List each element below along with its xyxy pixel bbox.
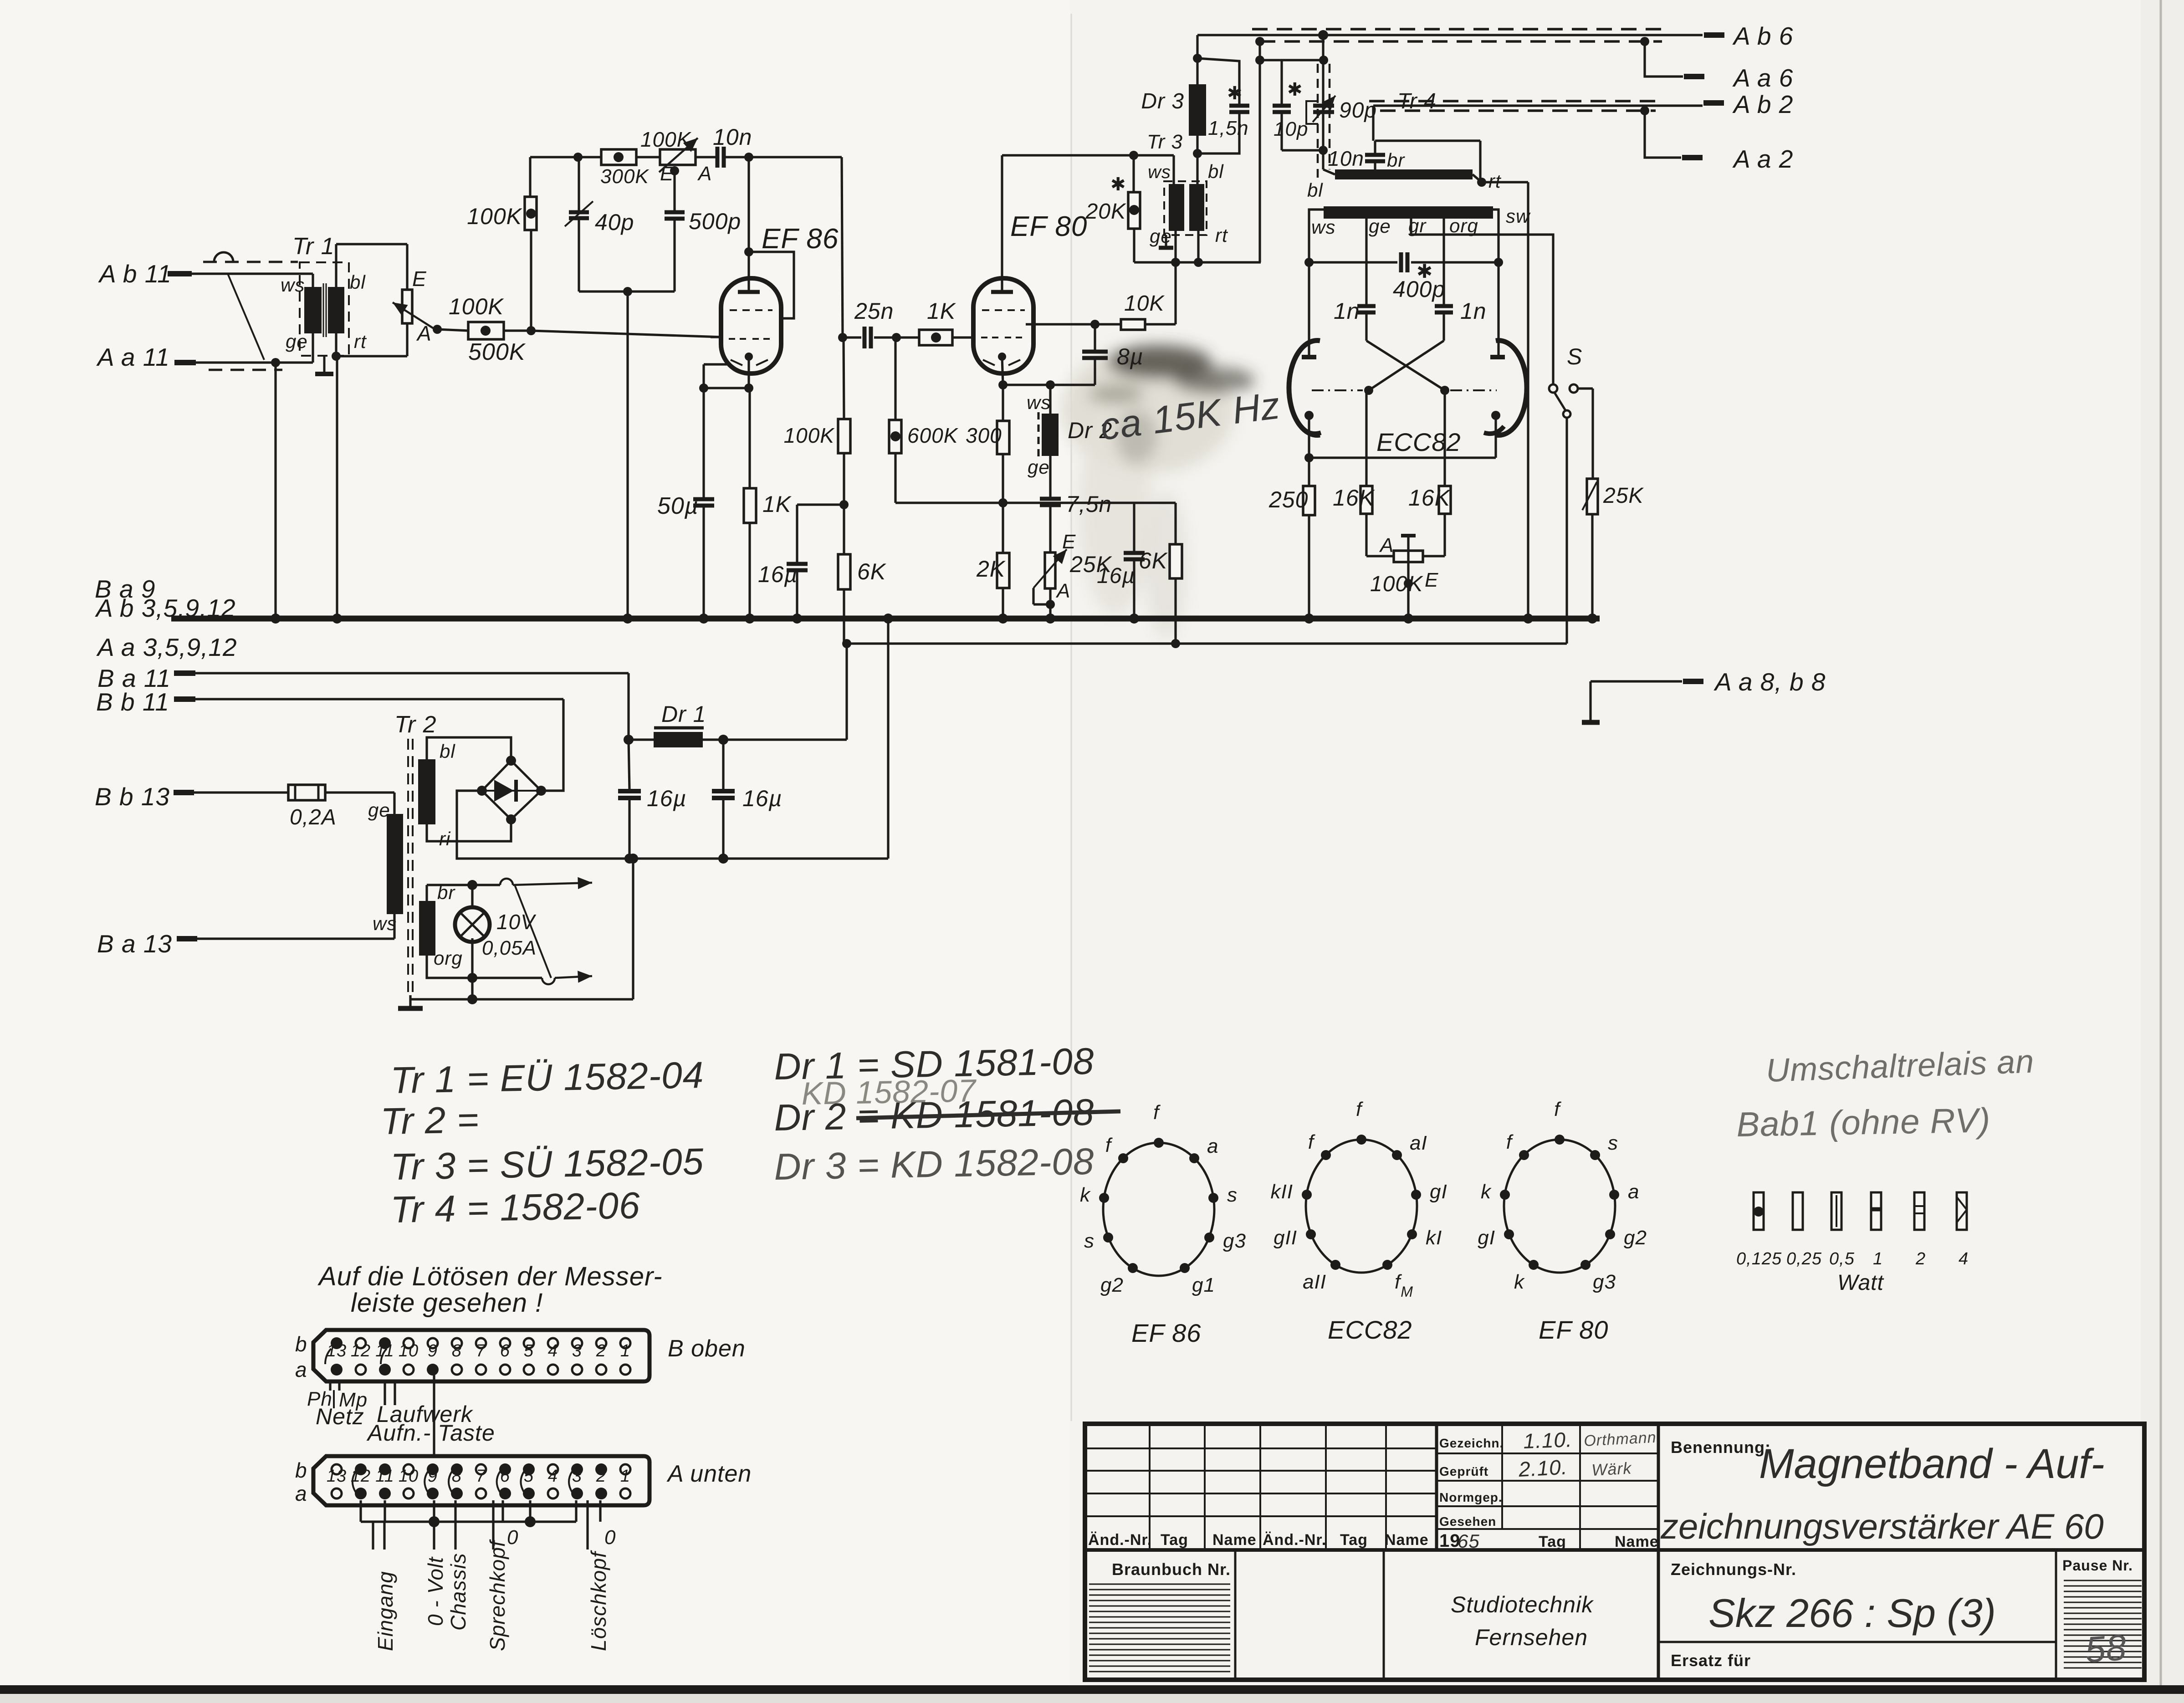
wire: common cathode	[1309, 415, 1496, 486]
svg-text:A a 6: A a 6	[1732, 64, 1793, 92]
svg-text:6: 6	[500, 1341, 510, 1360]
resistor 6K (EF80 stage)	[1139, 503, 1182, 644]
svg-text:3: 3	[572, 1467, 582, 1486]
svg-text:1,5n: 1,5n	[1208, 117, 1249, 139]
EF86 grids (dashed)	[729, 310, 773, 365]
label 0-Volt	[424, 1556, 447, 1626]
wire: sw drop to right anode	[1493, 210, 1499, 357]
wire: EF86 anode drop	[842, 157, 843, 338]
terminal Ab 11	[98, 260, 313, 288]
wire: heater bottom rail	[427, 956, 592, 984]
svg-text:5: 5	[524, 1341, 534, 1360]
svg-text:6K: 6K	[1139, 548, 1168, 573]
wire: 6K tie to 300/2K node	[1003, 501, 1176, 504]
node: 10p top	[1255, 56, 1324, 65]
node: sw/400p	[1494, 258, 1503, 267]
title Magnetband-Auf-	[1759, 1441, 2105, 1487]
B+ rail (thin bus)	[847, 642, 1567, 644]
svg-text:4: 4	[1959, 1249, 1969, 1268]
svg-text:500p: 500p	[689, 209, 741, 234]
svg-text:10: 10	[399, 1467, 419, 1486]
svg-text:Dr 1: Dr 1	[661, 701, 706, 727]
svg-text:10V: 10V	[496, 910, 537, 934]
tube ECC82 right half	[1484, 341, 1527, 435]
svg-text:9: 9	[428, 1467, 438, 1486]
scan fold line	[1071, 0, 2161, 1703]
EF86 grid lead	[711, 336, 721, 338]
svg-text:aII: aII	[1303, 1271, 1326, 1293]
svg-text:Tag: Tag	[1161, 1531, 1188, 1549]
svg-text:0 - Volt: 0 - Volt	[424, 1556, 447, 1626]
capacitor 7,5n	[1040, 456, 1112, 553]
svg-text:0,25: 0,25	[1786, 1249, 1822, 1268]
wire: cable tails	[373, 1500, 588, 1550]
ground bus (thick)	[171, 616, 1600, 622]
switch S	[1549, 344, 1582, 418]
svg-text:Ersatz für: Ersatz für	[1671, 1651, 1751, 1670]
svg-text:s: s	[1084, 1230, 1095, 1252]
tube EF80 envelope	[973, 278, 1033, 373]
wire: connector A bus	[361, 1520, 576, 1523]
node: 100K/6K junction	[839, 453, 849, 509]
EF80 cathode	[998, 353, 1006, 385]
svg-text:8: 8	[452, 1467, 462, 1486]
svg-text:100K: 100K	[784, 424, 835, 447]
resistor 500K (series)	[468, 322, 531, 365]
socket diagram ECC82	[1271, 1098, 1447, 1344]
svg-text:Geprüft: Geprüft	[1439, 1464, 1488, 1478]
EF86 cathode	[745, 353, 753, 388]
terminal Bb 13	[95, 782, 288, 811]
svg-text:✱: ✱	[1110, 174, 1126, 194]
svg-text:0: 0	[604, 1526, 616, 1549]
label Pause Nr	[2062, 1557, 2133, 1574]
svg-text:20K: 20K	[1085, 199, 1126, 224]
svg-text:Chassis: Chassis	[446, 1553, 470, 1631]
title zeichnungsverstaerker AE60	[1660, 1506, 2104, 1546]
svg-text:bl: bl	[440, 741, 455, 762]
svg-text:Tr 3 = SÜ 1582-05: Tr 3 = SÜ 1582-05	[390, 1141, 704, 1188]
wattage legend values	[1736, 1249, 1969, 1268]
svg-text:Pause Nr.: Pause Nr.	[2062, 1557, 2133, 1574]
node: 300/2K/600K junction	[998, 454, 1008, 507]
ground at Tr2 core	[398, 995, 423, 1008]
connector B pin links	[325, 1349, 395, 1405]
svg-text:100K: 100K	[640, 128, 692, 151]
node: Tr1 rt junction	[332, 352, 341, 361]
svg-text:ECC82: ECC82	[1328, 1315, 1412, 1344]
svg-text:100K: 100K	[449, 294, 504, 319]
svg-text:Watt: Watt	[1837, 1271, 1884, 1295]
capacitor 90p (trimmer)	[1306, 96, 1377, 124]
svg-text:sw: sw	[1506, 205, 1531, 227]
label Netz	[316, 1404, 364, 1429]
tube ECC82 label	[1376, 428, 1461, 456]
resistor 1K (EF80 grid)	[896, 298, 973, 345]
svg-text:0,2A: 0,2A	[290, 805, 337, 829]
svg-text:E: E	[660, 163, 674, 185]
label ge (Tr1)	[286, 331, 308, 352]
svg-text:16K: 16K	[1408, 485, 1451, 511]
svg-text:Fernsehen: Fernsehen	[1475, 1625, 1588, 1650]
node: Dr3 top / 1,5n	[1193, 54, 1202, 63]
svg-text:8µ: 8µ	[1117, 344, 1144, 369]
node: shield 1 to Aa6	[1640, 37, 1683, 77]
wire: EF86 screen loop	[749, 252, 794, 318]
choke Dr 1	[629, 701, 847, 747]
svg-text:Netz: Netz	[316, 1404, 364, 1429]
svg-text:Zeichnungs-Nr.: Zeichnungs-Nr.	[1671, 1560, 1796, 1579]
svg-text:6: 6	[500, 1467, 510, 1486]
label 0 (Sprechkopf return)	[507, 1526, 518, 1549]
svg-text:Wärk: Wärk	[1591, 1458, 1632, 1479]
title block check grid	[1437, 1424, 1658, 1680]
svg-text:bl: bl	[350, 271, 366, 293]
wire: signal line to EF86 grid	[531, 331, 721, 337]
handwriting Bab1 (ohne RV)	[1736, 1101, 1991, 1144]
svg-text:1: 1	[620, 1341, 630, 1360]
handwriting Dr2 = KD 1581-08 (struck)	[774, 1092, 1120, 1139]
svg-text:rt: rt	[1215, 225, 1228, 246]
node: Dr1 left	[624, 735, 634, 745]
svg-text:leiste gesehen !: leiste gesehen !	[351, 1288, 543, 1318]
ground at Tr1 shield	[315, 356, 333, 374]
svg-text:B a 13: B a 13	[97, 930, 172, 958]
svg-text:ge: ge	[286, 331, 308, 352]
svg-text:16K: 16K	[1333, 485, 1376, 511]
svg-text:a: a	[295, 1358, 307, 1381]
potentiometer 100K (input level)	[393, 267, 504, 345]
svg-text:Tr 3: Tr 3	[1147, 131, 1183, 153]
svg-text:g3: g3	[1593, 1271, 1616, 1293]
node: EF80 cathode junction	[998, 380, 1008, 389]
number 58	[2084, 1627, 2128, 1670]
terminal Aa6	[1684, 64, 1793, 92]
node: lamp top	[467, 880, 477, 890]
handwriting Tr2 =	[380, 1099, 480, 1142]
svg-text:A: A	[697, 163, 712, 185]
label Zeichnungs-Nr	[1671, 1560, 1796, 1579]
bottom page edge bar	[0, 1685, 2184, 1703]
label Aufn.-Taste	[366, 1420, 495, 1446]
capacitor 10n (Tr4)	[1328, 141, 1480, 182]
capacitor 1,5n	[1197, 58, 1249, 153]
node: 25n/1K/600K junction	[892, 333, 901, 342]
node: Dr1 right	[718, 735, 728, 745]
choke Dr 2	[1027, 380, 1112, 478]
wire: Ba11 to Dr1	[627, 673, 629, 740]
svg-text:k: k	[1481, 1181, 1492, 1203]
svg-text:Tag: Tag	[1340, 1531, 1368, 1549]
capacitor 500p	[665, 171, 741, 292]
capacitor 16u (screen)	[758, 505, 844, 619]
svg-text:2K: 2K	[976, 556, 1006, 582]
terminal Ab2	[1703, 90, 1793, 118]
svg-text:Tr 2 =: Tr 2 =	[380, 1099, 480, 1142]
node: connector bus junctions	[429, 1516, 536, 1527]
svg-text:A a 11: A a 11	[96, 343, 170, 371]
svg-text:a: a	[1628, 1181, 1639, 1203]
handwriting Tr3 = SU 1582-05	[390, 1141, 704, 1188]
label Eingang	[373, 1571, 397, 1651]
wire: switch lower contact to B+ rail	[1565, 418, 1568, 644]
svg-text:EF 80: EF 80	[1010, 211, 1087, 242]
node: DC- junctions	[624, 854, 728, 864]
svg-text:br: br	[1387, 149, 1405, 171]
transformer Tr 2 label	[394, 711, 437, 738]
svg-text:S: S	[1567, 344, 1582, 369]
node: screen/10K junction	[1090, 320, 1100, 329]
label Loeschkopf	[587, 1550, 610, 1651]
svg-text:Skz 266 : Sp (3): Skz 266 : Sp (3)	[1708, 1590, 1996, 1636]
svg-text:ws: ws	[1148, 162, 1171, 182]
resistor 300	[966, 385, 1009, 454]
svg-text:12: 12	[351, 1341, 371, 1360]
handwriting Dr3 = KD 1582-08	[774, 1141, 1095, 1188]
svg-text:2: 2	[1915, 1249, 1926, 1268]
capacitor 8u	[1082, 324, 1144, 385]
wire: 100K feed drop	[530, 157, 531, 331]
svg-text:10n: 10n	[1328, 147, 1364, 170]
title block revision grid	[1085, 1424, 2144, 1550]
svg-text:ri: ri	[439, 828, 451, 849]
node: Dr3 bottom / Tr3 bl	[1193, 149, 1202, 158]
svg-text:6K: 6K	[857, 559, 887, 584]
svg-text:100K: 100K	[1370, 572, 1423, 596]
svg-text:65: 65	[1458, 1530, 1480, 1552]
node: 40p top junction	[573, 153, 583, 162]
svg-text:aI: aI	[1410, 1132, 1427, 1154]
svg-text:Gesehen: Gesehen	[1439, 1514, 1496, 1529]
svg-text:gI: gI	[1430, 1181, 1447, 1203]
svg-text:zeichnungsverstärker AE 60: zeichnungsverstärker AE 60	[1660, 1506, 2104, 1546]
svg-text:gI: gI	[1478, 1227, 1495, 1249]
svg-text:k: k	[1080, 1184, 1091, 1206]
svg-text:Tr 1 = EÜ 1582-04: Tr 1 = EÜ 1582-04	[390, 1054, 704, 1101]
svg-text:16µ: 16µ	[1097, 564, 1135, 588]
wire: B+ top rail left	[530, 156, 842, 158]
transformer Tr 2 core	[408, 739, 413, 995]
svg-text:58: 58	[2084, 1627, 2128, 1670]
svg-text:Dr 3: Dr 3	[1141, 89, 1184, 113]
svg-text:7: 7	[476, 1341, 486, 1360]
wire: gr tap to switch	[1411, 216, 1553, 384]
svg-text:ge: ge	[368, 799, 390, 821]
wire: cross-coupling diagonals	[1366, 341, 1445, 390]
label Studiotechnik Fernsehen	[1451, 1592, 1594, 1650]
resistor 6K	[838, 505, 887, 644]
connector A pair arcs	[353, 1472, 572, 1492]
resistor 16K (left)	[1333, 390, 1376, 556]
svg-text:E: E	[412, 267, 427, 291]
svg-text:Name: Name	[1615, 1533, 1659, 1550]
title block lower cells	[1235, 1550, 2056, 1680]
resistor 16K (right)	[1408, 390, 1451, 556]
svg-text:40p: 40p	[595, 210, 634, 235]
svg-text:EF 80: EF 80	[1539, 1315, 1608, 1344]
svg-text:A a 8, b 8: A a 8, b 8	[1713, 668, 1826, 696]
svg-text:1: 1	[620, 1467, 630, 1486]
svg-text:7: 7	[476, 1467, 486, 1486]
wire: heater top rail	[427, 877, 592, 901]
label bl (Tr1)	[350, 271, 366, 293]
node: 100K wiper	[1404, 579, 1413, 619]
resistor 100K (shunt)	[467, 197, 537, 230]
wire: ge to 10K	[1174, 262, 1176, 324]
svg-text:1K: 1K	[927, 298, 956, 324]
svg-text:rt: rt	[1488, 170, 1502, 192]
svg-text:bl: bl	[1307, 179, 1323, 201]
node: left grid	[1364, 386, 1373, 395]
note Auf die Loetoesen	[317, 1262, 663, 1318]
resistor 2K	[976, 503, 1009, 619]
svg-text:Sprechkopf: Sprechkopf	[486, 1539, 509, 1651]
capacitor 50u	[657, 388, 714, 619]
EF80 screen lead	[1026, 323, 1095, 325]
svg-text:Tr 2: Tr 2	[394, 711, 437, 738]
capacitor 40p (trimmer)	[565, 157, 634, 292]
labels And.-Nr Tag Name	[1088, 1531, 1429, 1549]
transformer Tr 2 heater winding	[419, 882, 463, 969]
svg-text:g1: g1	[1192, 1274, 1215, 1296]
capacitor 10n	[713, 124, 752, 168]
capacitor 16u (filter)	[712, 740, 782, 859]
svg-text:10n: 10n	[713, 124, 752, 150]
terminal Ab6	[1704, 22, 1793, 50]
svg-text:Dr 3 = KD 1582-08: Dr 3 = KD 1582-08	[774, 1141, 1095, 1188]
svg-text:Normgep.: Normgep.	[1439, 1490, 1503, 1504]
terminal Ba 11	[97, 664, 629, 692]
node: 90p taps	[1319, 56, 1328, 155]
svg-text:gII: gII	[1274, 1227, 1297, 1249]
handwriting Umschaltrelais an	[1765, 1043, 2035, 1089]
svg-text:Aufn.- Taste: Aufn.- Taste	[366, 1420, 495, 1446]
tube EF86 label	[762, 223, 839, 255]
resistor 100K (EF86 anode load)	[784, 338, 850, 453]
connector A below-wires	[361, 1500, 600, 1522]
wire: Ab2 conductor	[1373, 106, 1703, 141]
svg-text:kI: kI	[1426, 1227, 1442, 1249]
svg-text:org: org	[434, 947, 463, 969]
shield dashes cable 2 drop	[1318, 64, 1330, 178]
potentiometer 25K (bias)	[1033, 531, 1113, 602]
svg-text:300: 300	[966, 424, 1002, 447]
shield dashes cable 2	[1369, 101, 1656, 111]
svg-text:s: s	[1227, 1184, 1238, 1206]
ECC82 grid dash-dot lines	[1312, 389, 1497, 391]
ground at Tr3 shield	[1159, 235, 1173, 248]
svg-text:A a 2: A a 2	[1732, 145, 1793, 173]
node: pot wiper to 500K	[433, 325, 468, 334]
svg-text:0,05A: 0,05A	[482, 937, 537, 959]
svg-text:B oben: B oben	[668, 1335, 746, 1362]
capacitor 16u (EF80 stage)	[1097, 503, 1145, 619]
svg-text:EF 86: EF 86	[1131, 1319, 1201, 1347]
capacitor 400p	[1309, 252, 1499, 302]
transformer Tr 3 label	[1147, 131, 1183, 153]
node: filter to ground	[623, 287, 632, 619]
wire: B+ riser from Dr1	[845, 644, 848, 740]
node: cable1 junction	[1318, 30, 1328, 40]
capacitor 16u (reservoir)	[618, 740, 686, 859]
svg-text:7,5n: 7,5n	[1066, 491, 1112, 517]
svg-text:A: A	[1055, 580, 1070, 602]
wire: b9 link B to A	[433, 1375, 435, 1456]
terminal Ba 13	[97, 914, 394, 958]
svg-text:s: s	[1608, 1132, 1618, 1154]
wire: input pair crossover	[228, 274, 264, 360]
svg-text:ws: ws	[373, 913, 397, 934]
wire: ge tap drop	[1365, 216, 1367, 305]
wire: rt lead of Tr4	[1473, 170, 1528, 192]
svg-text:Tr 1: Tr 1	[292, 233, 335, 260]
node: ws/400p	[1304, 258, 1314, 267]
svg-text:Änd.-Nr.: Änd.-Nr.	[1263, 1531, 1326, 1549]
svg-text:Name: Name	[1385, 1531, 1429, 1549]
svg-text:ws: ws	[1311, 216, 1335, 238]
svg-text:Eingang: Eingang	[373, 1571, 397, 1651]
transformer Tr 1 label	[292, 233, 335, 260]
node: heater/DC- tie	[628, 854, 638, 864]
resistor 250	[1268, 486, 1315, 619]
svg-text:16µ: 16µ	[742, 786, 782, 811]
node: EF86 anode/25n junction	[838, 333, 847, 342]
svg-text:A: A	[416, 322, 432, 345]
wire: heater crossover	[515, 885, 551, 978]
capacitor 10p	[1273, 60, 1323, 150]
svg-text:3: 3	[572, 1341, 582, 1360]
svg-text:1n: 1n	[1334, 298, 1360, 324]
svg-text:Tag: Tag	[1539, 1533, 1566, 1550]
label Braunbuch Nr	[1112, 1560, 1231, 1579]
wire: Tr3 bottom tie line	[1134, 231, 1261, 262]
svg-text:ECC82: ECC82	[1376, 428, 1461, 456]
tube EF86 envelope	[721, 278, 781, 373]
connector strip A unten	[295, 1456, 752, 1505]
svg-text:11: 11	[375, 1467, 394, 1486]
svg-text:A unten: A unten	[666, 1461, 752, 1487]
handwriting ca 15KHz	[1098, 384, 1283, 448]
svg-text:1: 1	[1873, 1249, 1883, 1268]
svg-text:Braunbuch Nr.: Braunbuch Nr.	[1112, 1560, 1231, 1579]
scan stains near EF80	[1061, 345, 1255, 638]
handwriting Tr4 = 1582-06	[390, 1185, 641, 1231]
wire: 40p/500p common	[579, 290, 675, 292]
tube EF80 label	[1010, 211, 1087, 242]
svg-text:Benennung:: Benennung:	[1671, 1438, 1771, 1457]
svg-text:1K: 1K	[762, 491, 792, 517]
transformer Tr 2 primary	[368, 799, 403, 934]
EF80 anode	[991, 155, 1013, 292]
svg-text:bl: bl	[1208, 161, 1224, 182]
capacitor 1n (right)	[1435, 298, 1487, 341]
shield dashes of input pair	[203, 252, 298, 370]
svg-text:100K: 100K	[467, 204, 522, 229]
wire: rt to ground bus	[1527, 182, 1529, 619]
terminal Aa 11	[96, 343, 313, 371]
node: EF86 anode top	[744, 153, 753, 162]
resistor 20K	[1085, 155, 1140, 262]
label Ph Mp	[307, 1388, 368, 1411]
node: 500K / 100K junction	[527, 326, 536, 335]
svg-text:B b 11: B b 11	[96, 688, 169, 716]
wire: org tap drop	[1442, 216, 1445, 305]
wire: ws drop to left anode	[1309, 210, 1324, 357]
svg-text:250: 250	[1268, 487, 1308, 512]
entries dates and names	[1518, 1427, 1657, 1481]
svg-text:✱: ✱	[1227, 83, 1243, 103]
wire: 25K wiper tie	[1033, 588, 1055, 619]
